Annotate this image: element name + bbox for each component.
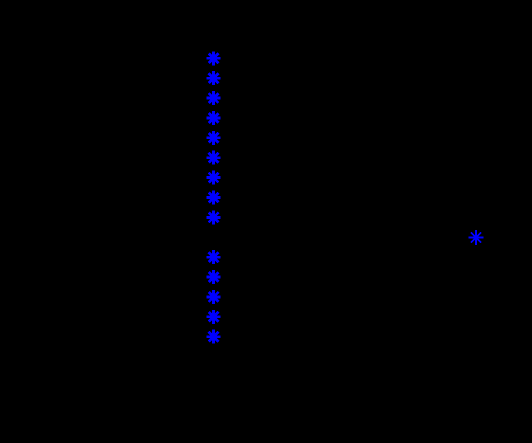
blue asterisk data marker P2 in left column (x=213.6, y=78.2) xyxy=(207,71,221,85)
blue asterisk data marker P5 in left column (x=213.6, y=137.8) xyxy=(207,131,221,145)
blue asterisk data marker P10 outlier at right (x=476.0, y=237.5) xyxy=(469,230,484,245)
blue asterisk data marker P13 in left column (x=213.6, y=296.9) xyxy=(207,290,221,304)
blue asterisk data marker P7 in left column (x=213.6, y=177.6) xyxy=(207,171,221,185)
blue asterisk data marker P6 in left column (x=213.6, y=157.7) xyxy=(207,151,221,165)
blue asterisk data marker P3 in left column (x=213.6, y=98.1) xyxy=(207,91,221,105)
blue asterisk data marker P15 in left column (x=213.6, y=336.7) xyxy=(207,330,221,344)
blue asterisk data marker P8 in left column (x=213.6, y=197.5) xyxy=(207,191,221,205)
blue asterisk data marker P1 in left column (x=213.6, y=58.3) xyxy=(207,51,221,65)
blue asterisk data marker P9 in left column (x=213.6, y=217.4) xyxy=(207,210,221,224)
blue asterisk data marker P4 in left column (x=213.6, y=118.0) xyxy=(207,111,221,125)
blue asterisk data marker P12 in left column (x=213.6, y=277.0) xyxy=(207,270,221,284)
blue asterisk data marker P11 in left column (x=213.6, y=257.2) xyxy=(207,250,221,264)
blue asterisk data marker P14 in left column (x=213.6, y=316.8) xyxy=(207,310,221,324)
